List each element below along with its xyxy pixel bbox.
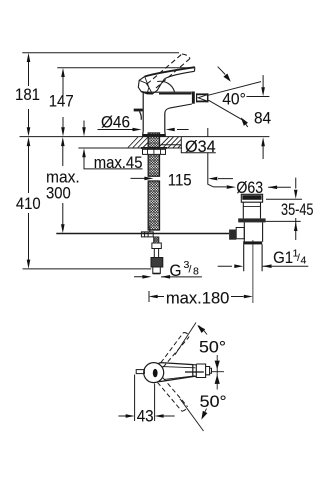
svg-text:50°: 50° [200,392,227,411]
svg-text:300: 300 [46,184,71,203]
svg-text:4: 4 [301,255,307,267]
svg-text:max.45: max.45 [94,153,143,172]
svg-text:115: 115 [168,171,192,190]
svg-text:410: 410 [16,194,41,213]
svg-text:84: 84 [254,108,271,127]
svg-text:max.180: max.180 [166,288,230,307]
svg-text:181: 181 [15,85,40,104]
svg-text:G: G [170,261,182,280]
svg-text:43: 43 [137,406,154,425]
svg-text:Ø63: Ø63 [236,178,263,197]
svg-text:40°: 40° [222,90,246,109]
svg-text:Ø46: Ø46 [101,113,130,132]
svg-text:/: / [189,264,192,276]
svg-text:50°: 50° [199,337,226,356]
svg-text:8: 8 [193,266,199,278]
svg-text:147: 147 [49,92,74,111]
svg-text:G1: G1 [273,248,293,267]
svg-text:Ø34: Ø34 [185,137,216,156]
svg-text:35-45: 35-45 [281,200,314,219]
